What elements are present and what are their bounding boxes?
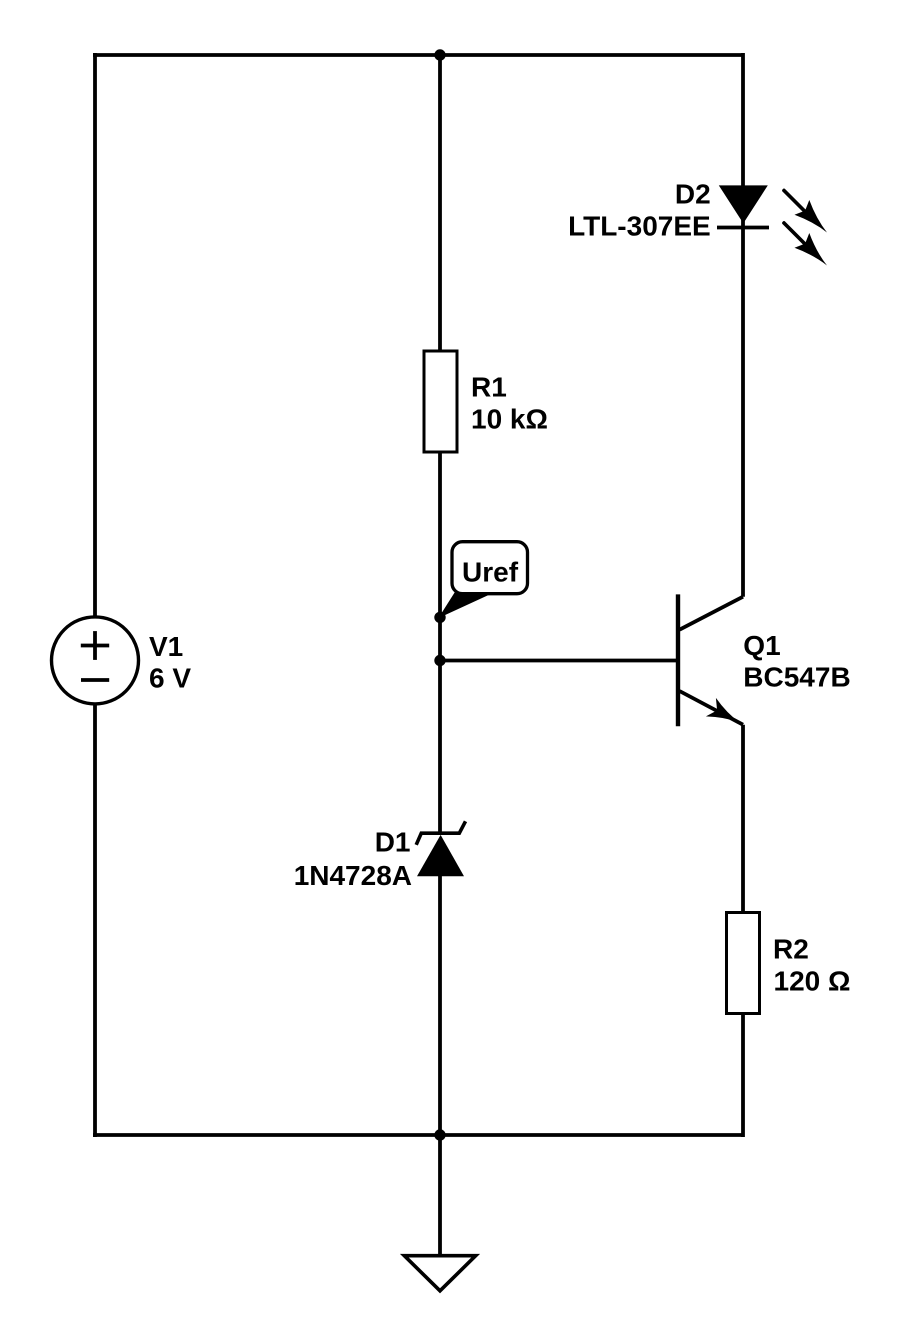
- ground symbol: [404, 1256, 475, 1291]
- svg-text:D2: D2: [675, 179, 711, 210]
- junction dot bottom node: [434, 1129, 445, 1140]
- svg-text:120 Ω: 120 Ω: [774, 965, 851, 996]
- wire bottom rail: [93, 1133, 743, 1137]
- node Uref dot: [434, 612, 445, 623]
- wire R1 bottom to zener D1: [438, 452, 442, 835]
- wire D2 cathode to Q1 collector: [741, 228, 745, 597]
- svg-text:V1: V1: [149, 631, 183, 662]
- wire left rail lower (V1 minus lead): [93, 704, 97, 1137]
- voltage source V1: [52, 617, 139, 704]
- svg-text:6 V: 6 V: [149, 662, 191, 693]
- resistor R1: [424, 351, 457, 452]
- junction dot top node: [434, 49, 445, 60]
- svg-text:R2: R2: [773, 933, 809, 964]
- svg-text:10 kΩ: 10 kΩ: [471, 403, 548, 434]
- node label Uref: [440, 542, 528, 617]
- transistor Q1: [678, 594, 743, 726]
- junction dot base node: [434, 655, 445, 666]
- resistor R2: [727, 913, 760, 1014]
- wire ground stem: [438, 1135, 442, 1256]
- wire D1 to bottom rail: [438, 876, 442, 1135]
- wire base node to Q1 base: [440, 659, 678, 663]
- LED D2: [717, 185, 827, 265]
- wire middle upper (R1 top lead): [438, 55, 442, 351]
- wire R2 to bottom rail: [741, 1014, 745, 1138]
- zener diode D1: [416, 821, 465, 876]
- svg-text:BC547B: BC547B: [743, 662, 850, 693]
- svg-text:LTL-307EE: LTL-307EE: [568, 211, 711, 242]
- svg-text:R1: R1: [471, 372, 507, 403]
- wire top rail: [93, 53, 743, 57]
- wire Q1 emitter to R2: [741, 725, 745, 913]
- wire left rail upper (V1 plus lead): [93, 53, 97, 617]
- wire right rail upper (D2 anode lead): [741, 53, 745, 228]
- svg-text:Uref: Uref: [462, 556, 519, 587]
- svg-text:1N4728A: 1N4728A: [294, 860, 412, 891]
- svg-text:Q1: Q1: [743, 630, 780, 661]
- svg-text:D1: D1: [375, 827, 411, 858]
